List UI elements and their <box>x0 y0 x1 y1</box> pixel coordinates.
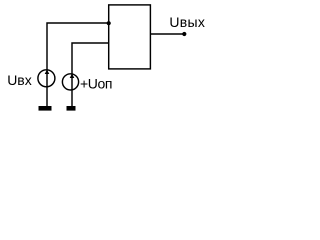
node: junction dot at block input <box>107 21 111 25</box>
wire: Uоп source up and right to block input <box>72 43 109 106</box>
svg-text:Uвых: Uвых <box>169 14 205 30</box>
svg-text:Uвх: Uвх <box>7 72 32 88</box>
arrowhead inside Uвх source <box>45 70 50 74</box>
arrowhead inside Uоп source <box>70 74 75 78</box>
ground (Uоп source) <box>67 106 76 111</box>
comparator block U1 <box>109 5 151 69</box>
wire: Uвх source up and right to block input <box>47 23 109 106</box>
ground (Uвх source) <box>39 106 52 111</box>
wire: output from block <box>150 33 184 35</box>
node: output terminal dot <box>182 32 186 36</box>
svg-text:+Uоп: +Uоп <box>80 76 112 92</box>
source circle Uоп <box>62 74 78 90</box>
source circle Uвх <box>38 70 55 87</box>
